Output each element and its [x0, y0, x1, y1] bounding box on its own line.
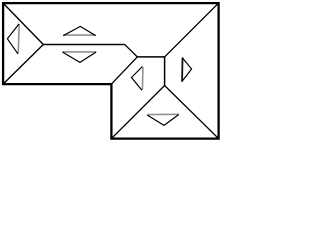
- ridge left wing: [43, 44, 124, 46]
- hip line bottom-right corner: [165, 86, 219, 139]
- slope arrow top wing lower (points down): [62, 52, 96, 63]
- slope arrow top wing upper (points up): [63, 26, 95, 35]
- hip line top-right corner: [165, 3, 219, 57]
- slope arrow right wing bottom face (points down): [147, 114, 179, 125]
- hip line bottom inner corner: [111, 86, 164, 139]
- slope arrow left wing (points left): [7, 24, 19, 54]
- valley to inner corner: [111, 57, 137, 84]
- slope arrow right wing left face (points left): [132, 67, 143, 91]
- hip line bottom-left corner: [3, 45, 43, 85]
- ridge step segment: [125, 45, 138, 57]
- connecting ridge: [137, 56, 164, 58]
- hip line top-left corner: [3, 3, 43, 44]
- slope arrow right wing right face (points right): [182, 58, 192, 82]
- ridge right wing (vertical): [164, 57, 166, 86]
- roof plan outline (L-shaped building): [3, 3, 219, 139]
